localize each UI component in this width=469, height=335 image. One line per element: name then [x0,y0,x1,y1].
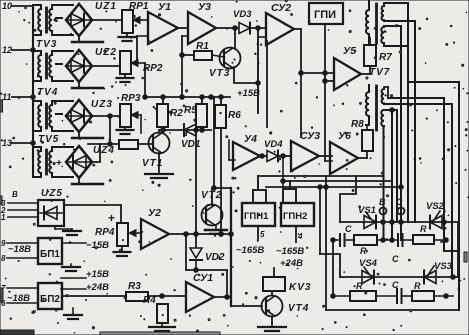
svg-text:R1: R1 [196,41,209,52]
svg-text:~165В: ~165В [276,246,304,257]
svg-text:UZ4: UZ4 [93,145,115,156]
svg-text:СУ1: СУ1 [193,272,213,284]
svg-text:13: 13 [2,138,12,148]
svg-text:VT4: VT4 [288,303,309,314]
svg-text:ГПН2: ГПН2 [283,211,307,222]
svg-text:+24В: +24В [86,282,109,293]
svg-text:VD2: VD2 [205,252,225,263]
svg-text:UZ3: UZ3 [91,99,113,110]
svg-text:БП1: БП1 [40,249,60,260]
svg-text:C: C [392,280,399,290]
svg-text:VT3: VT3 [209,68,230,79]
svg-text:C: C [345,224,352,234]
svg-text:R: R [420,224,427,234]
svg-text:В: В [379,197,386,207]
svg-text:+15В: +15В [237,88,260,99]
svg-text:TV7: TV7 [369,67,390,78]
svg-text:R8: R8 [351,119,364,130]
svg-text:TV3: TV3 [36,39,57,50]
svg-text:VS2: VS2 [426,201,445,212]
svg-text:8: 8 [1,254,6,263]
svg-text:5: 5 [260,230,265,239]
svg-text:+: + [56,158,62,169]
svg-text:С: С [396,197,403,207]
svg-text:KV3: KV3 [289,282,311,293]
svg-text:UZ1: UZ1 [95,1,117,12]
svg-text:TV5: TV5 [38,134,59,145]
svg-text:R: R [414,281,421,291]
svg-text:RP4: RP4 [95,227,115,238]
svg-text:11: 11 [2,92,11,102]
svg-text:У3: У3 [198,1,211,13]
svg-text:У2: У2 [148,207,161,219]
svg-text:−15В: −15В [86,240,109,251]
svg-text:R7: R7 [379,52,392,63]
svg-text:R6: R6 [228,110,241,121]
svg-text:СУ2: СУ2 [271,2,291,14]
svg-text:VD3: VD3 [233,9,252,20]
svg-text:C: C [392,254,399,264]
svg-text:R4: R4 [143,295,156,306]
svg-text:R3: R3 [128,281,141,292]
svg-text:UZ2: UZ2 [95,47,117,58]
svg-text:12: 12 [2,45,12,55]
svg-text:RP3: RP3 [121,93,141,104]
svg-text:СУ3: СУ3 [300,130,320,142]
svg-text:UZ5: UZ5 [41,188,63,199]
svg-text:В: В [12,190,18,199]
svg-text:+15В: +15В [86,269,109,280]
svg-text:VT1: VT1 [142,158,163,169]
svg-text:У6: У6 [338,130,351,142]
svg-text:VD1: VD1 [181,139,201,150]
svg-text:VS3: VS3 [434,261,453,272]
svg-text:+24В: +24В [280,258,303,269]
svg-text:10: 10 [2,1,12,11]
svg-text:9: 9 [1,239,6,248]
svg-text:У1: У1 [158,1,171,13]
svg-text:~165В: ~165В [236,245,264,256]
svg-text:VS4: VS4 [359,258,378,269]
svg-text:1: 1 [1,213,6,222]
svg-text:RP1: RP1 [129,1,149,12]
svg-text:VT2: VT2 [201,190,222,201]
svg-text:R2: R2 [170,108,183,119]
svg-text:VD4: VD4 [264,139,283,150]
svg-text:+: + [108,211,115,225]
svg-text:R5: R5 [184,105,197,116]
svg-text:R: R [356,281,363,291]
svg-text:~18В: ~18В [8,244,31,255]
svg-text:У4: У4 [244,133,257,145]
svg-text:ГПИ: ГПИ [314,9,336,21]
svg-text:ГПН1: ГПН1 [244,211,269,222]
